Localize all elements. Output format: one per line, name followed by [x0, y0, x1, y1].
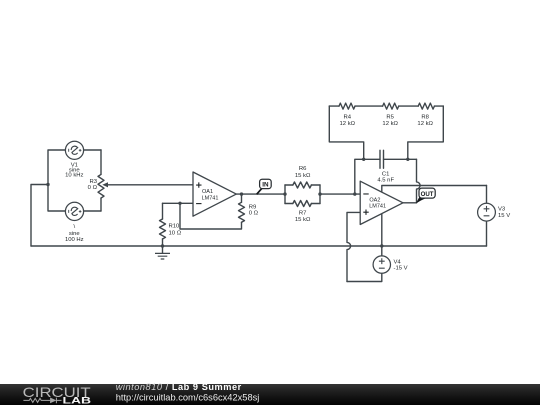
svg-text:12 kΩ: 12 kΩ	[382, 121, 398, 127]
svg-text:-15 V: -15 V	[394, 266, 408, 272]
svg-text:12 kΩ: 12 kΩ	[417, 121, 433, 127]
svg-text:LAB: LAB	[63, 395, 92, 405]
svg-text:100 Hz: 100 Hz	[65, 237, 84, 243]
svg-text:LM741: LM741	[202, 195, 219, 201]
svg-text:0 Ω: 0 Ω	[88, 185, 98, 191]
svg-text:15 V: 15 V	[498, 213, 510, 219]
svg-text:IN: IN	[262, 182, 269, 189]
svg-text:R5: R5	[386, 114, 394, 120]
svg-text:LM741: LM741	[369, 204, 386, 210]
svg-text:0 Ω: 0 Ω	[249, 210, 259, 216]
svg-text:OA1: OA1	[202, 189, 213, 195]
svg-text:12 kΩ: 12 kΩ	[340, 121, 356, 127]
svg-text:V3: V3	[498, 207, 506, 213]
svg-text:OUT: OUT	[421, 191, 434, 198]
svg-text:R6: R6	[299, 166, 307, 172]
svg-text:10 kHz: 10 kHz	[65, 173, 83, 179]
svg-text:10 Ω: 10 Ω	[169, 231, 182, 237]
svg-text:C1: C1	[382, 172, 390, 178]
svg-text:R10: R10	[169, 223, 181, 229]
svg-text:4.5 nF: 4.5 nF	[377, 178, 394, 184]
svg-text:R4: R4	[344, 114, 352, 120]
svg-text:R8: R8	[421, 114, 429, 120]
svg-text:15 kΩ: 15 kΩ	[295, 173, 311, 179]
svg-text:V4: V4	[394, 259, 402, 265]
svg-text:http://circuitlab.com/c6s6cx42: http://circuitlab.com/c6s6cx42x58sj	[116, 393, 260, 403]
svg-text:15 kΩ: 15 kΩ	[295, 217, 311, 223]
svg-text:OA2: OA2	[369, 197, 380, 203]
svg-text:winton810 / Lab 9 Summer: winton810 / Lab 9 Summer	[116, 382, 242, 392]
svg-text:R7: R7	[299, 210, 307, 216]
svg-text:sine: sine	[69, 231, 81, 237]
